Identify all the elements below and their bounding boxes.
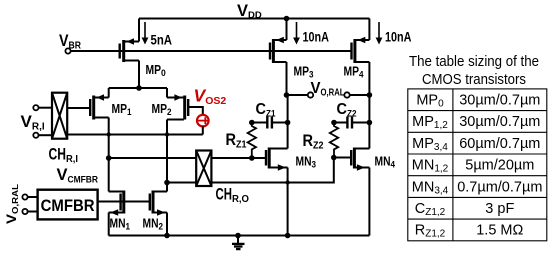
node CZ2 right bbox=[367, 120, 373, 126]
node MP1-MN1 drain junction bbox=[106, 155, 112, 161]
node crossing dot right bbox=[165, 132, 169, 136]
node rail MN3 bbox=[285, 233, 291, 239]
transistor MP2 bbox=[167, 88, 203, 120]
transistor MP3 bbox=[270, 19, 287, 96]
wire CHRI lower output bbox=[67, 134, 203, 136]
wire VBR gate bus bbox=[71, 50, 352, 52]
node VDD MP3 bbox=[284, 16, 290, 22]
svg-text:1.5 MΩ: 1.5 MΩ bbox=[476, 223, 523, 239]
transistor MP0 bbox=[120, 19, 139, 89]
node crossing dot left bbox=[107, 132, 111, 136]
node VORAL right junction bbox=[367, 92, 373, 98]
wire ground rail bbox=[109, 235, 370, 237]
node VBR terminal bbox=[65, 48, 70, 53]
transistor MP4 bbox=[352, 19, 370, 96]
svg-text:30µm/0.7µm: 30µm/0.7µm bbox=[459, 114, 540, 130]
ground bbox=[232, 236, 245, 250]
wire first stage lower output bbox=[167, 158, 334, 183]
svg-text:5µm/20µm: 5µm/20µm bbox=[465, 158, 534, 174]
transistor MN1 bbox=[109, 191, 124, 236]
svg-text:5nA: 5nA bbox=[151, 33, 173, 48]
svg-text:10nA: 10nA bbox=[303, 30, 330, 45]
wire MP4 drain to MN4 drain bbox=[368, 95, 370, 149]
wire CHRI input upper bbox=[39, 107, 53, 109]
arrow 10nA second bbox=[376, 22, 383, 45]
resistor RZ1 bbox=[248, 123, 256, 159]
wire MP1 drain to node A bbox=[108, 118, 110, 192]
node tail junction bbox=[136, 85, 142, 91]
wire VORAL left bbox=[287, 94, 308, 96]
node rail ground tap bbox=[235, 233, 241, 239]
node RZ1 top bbox=[249, 120, 255, 126]
node CZ1 right bbox=[285, 120, 291, 126]
wire VOS2 to CHRI lower line bbox=[202, 126, 204, 134]
node rail MN2 bbox=[164, 233, 170, 239]
node VORAL terminal right bbox=[344, 92, 349, 97]
svg-text:3 pF: 3 pF bbox=[485, 201, 514, 217]
arrow 10nA first bbox=[293, 22, 300, 45]
transistor MN4 bbox=[351, 148, 369, 236]
wire first stage upper output bbox=[109, 157, 266, 159]
svg-text:10nA: 10nA bbox=[385, 30, 412, 45]
wire MP2 drain to node B bbox=[166, 120, 168, 192]
node VORAL left bbox=[284, 92, 290, 98]
wire VORAL right bbox=[350, 94, 370, 96]
chopper CHRO bbox=[196, 151, 211, 187]
wire CMFBR output to mirror gates bbox=[98, 201, 150, 203]
CMFBR block bbox=[22, 190, 97, 220]
svg-text:The table sizing of the: The table sizing of the bbox=[409, 54, 539, 70]
resistor RZ2 bbox=[330, 123, 338, 158]
wire MN4 gate bbox=[334, 157, 351, 159]
node MP2-MN2 drain junction bbox=[164, 180, 170, 186]
svg-text:30µm/0.7µm: 30µm/0.7µm bbox=[459, 93, 540, 109]
chopper CHRI bbox=[52, 93, 67, 139]
arrow 5nA bbox=[142, 22, 149, 45]
node VRI terminal upper bbox=[33, 105, 38, 110]
transistor MN2 bbox=[150, 191, 167, 236]
transistor MN3 bbox=[266, 95, 288, 236]
capacitor CZ2 bbox=[334, 117, 369, 129]
source VOS2 bbox=[197, 115, 209, 127]
table grid bbox=[408, 89, 547, 241]
wire diff-pair source bar bbox=[109, 87, 167, 89]
capacitor CZ1 bbox=[252, 117, 288, 129]
node VRI terminal lower bbox=[33, 133, 38, 138]
wire VDD rail bbox=[139, 18, 369, 20]
node VORAL terminal left bbox=[308, 92, 313, 97]
node RZ1 bottom bbox=[249, 155, 255, 161]
svg-text:0.7µm/0.7µm: 0.7µm/0.7µm bbox=[457, 179, 542, 195]
wire CHRI input lower bbox=[39, 134, 53, 136]
wire CHRI upper output bbox=[67, 107, 90, 109]
svg-text:CMFBR: CMFBR bbox=[41, 197, 95, 215]
node CZ2 left bbox=[331, 120, 337, 126]
node RZ2 bottom bbox=[331, 155, 337, 161]
svg-text:60µm/0.7µm: 60µm/0.7µm bbox=[459, 136, 540, 152]
node MN3 source crossing bbox=[285, 180, 289, 184]
transistor MP1 bbox=[90, 88, 109, 120]
svg-text:CMOS transistors: CMOS transistors bbox=[422, 72, 526, 88]
